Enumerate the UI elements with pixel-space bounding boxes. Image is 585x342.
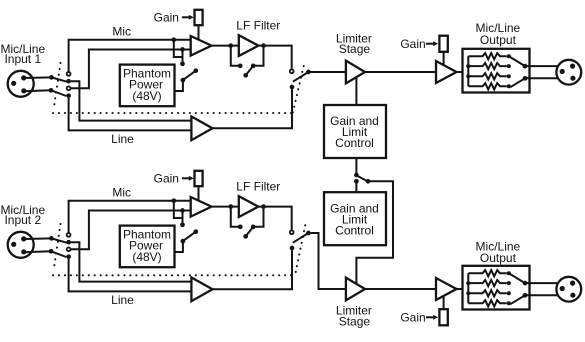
- selector S10 line throw ch2: [290, 246, 295, 251]
- contact R9: [507, 271, 511, 275]
- limiter amp U4 ch1: [346, 61, 365, 84]
- switch S7b line throw: [66, 254, 71, 259]
- switch S7a mic throw (open): [67, 233, 71, 237]
- J2 pin 1: [560, 69, 565, 74]
- output level switch S6b pole ch1: [523, 76, 528, 81]
- gang dotted line selector ch2: [296, 224, 306, 272]
- mic preamp U1 ch1: [191, 36, 212, 56]
- gain pot R8 (output amp 2): [439, 309, 447, 325]
- junction phantom feed on bus A ch2: [171, 198, 176, 203]
- XLR connector J1 (Mic/Line Input 1): [8, 71, 34, 97]
- link switch S5 lever: [357, 176, 367, 181]
- switch S7a pole: [49, 236, 54, 241]
- wire LF bypass left leg: [231, 46, 238, 66]
- LF bypass switch S3 lever (open): [246, 66, 253, 75]
- svg-text:Output: Output: [480, 251, 517, 265]
- svg-text:Gain: Gain: [154, 11, 179, 25]
- J1 pin 1: [11, 81, 16, 86]
- phantom switch S8 pole: [181, 239, 186, 244]
- gain pot R1 (mic preamp 1): [195, 10, 203, 25]
- svg-text:Stage: Stage: [339, 315, 371, 329]
- output level switch S6a lever ch1: [510, 57, 525, 66]
- contact R10: [507, 281, 511, 285]
- resistor bus ch1: [467, 56, 469, 86]
- wire J3 pin3 to switch S7b pole: [24, 250, 51, 253]
- resistor R9 ch2: [468, 270, 507, 276]
- arrow gain pot 2: [182, 177, 190, 179]
- wire pot out1 to amp: [443, 52, 445, 66]
- LF bypass switch S9 lever (open): [246, 227, 253, 236]
- wire LF out to selector ch2: [258, 207, 291, 230]
- wire J1 pin3 to switch S1b pole: [24, 89, 51, 92]
- contact R12: [507, 301, 511, 305]
- output level switch S11a lever ch2: [510, 274, 525, 283]
- wire J1 pin2 to switch S1a pole: [24, 76, 51, 79]
- output level switch S11a pole ch2: [523, 281, 528, 286]
- phantom power supply box ch2: [120, 226, 175, 268]
- J4 pin 3: [570, 293, 575, 298]
- wire pot 2 to preamp: [198, 186, 200, 201]
- wire link contact to box2: [355, 181, 357, 192]
- wire S11a to XLR out ch2: [525, 282, 558, 284]
- wire S6a to XLR out ch1: [525, 65, 558, 67]
- junction phantom feed on bus A: [171, 37, 176, 42]
- J3 pin 3: [21, 249, 26, 254]
- J1 pin 3: [21, 88, 26, 93]
- svg-text:Gain: Gain: [400, 311, 425, 325]
- wire line bus lower ch2: [69, 259, 192, 292]
- limiter amp U9 ch2: [346, 278, 365, 301]
- wire preamp out to LF filter ch2: [212, 206, 239, 208]
- resistor R11 ch2: [468, 290, 507, 296]
- phantom power supply box ch1: [120, 65, 175, 107]
- selector S4 lever ch1: [293, 72, 309, 82]
- wire pot out2 to amp: [443, 296, 445, 309]
- gang dotted line input switch ch1: [54, 63, 61, 110]
- svg-text:Input 1: Input 1: [4, 52, 41, 66]
- contact R11: [507, 291, 511, 295]
- XLR connector J3 (Mic/Line Input 2): [8, 232, 34, 258]
- gain and limit control box ch1: [324, 105, 386, 158]
- switch S1b line throw: [66, 93, 71, 98]
- selector S4 line throw ch1: [290, 85, 295, 90]
- svg-text:(48V): (48V): [132, 250, 161, 264]
- wire limiter to gain/limit control ch1: [355, 78, 357, 106]
- wire line amp out to selector throw ch2: [213, 250, 293, 289]
- svg-text:Control: Control: [335, 223, 374, 237]
- phantom switch S2 lever tip (open): [193, 68, 198, 73]
- svg-text:Mic: Mic: [112, 186, 131, 200]
- LF bypass contact left ch2: [238, 224, 243, 229]
- wire line bus lower ch1: [69, 98, 192, 130]
- phantom switch S8 lever: [183, 232, 196, 241]
- contact R4: [507, 64, 511, 68]
- wire limiter out to output amp ch1: [365, 71, 436, 73]
- gain and limit control box ch2: [324, 192, 386, 245]
- output level switch S11b pole ch2: [523, 293, 528, 298]
- wire phantom feed network ch1: [174, 40, 183, 64]
- output attenuator box ch2: [463, 266, 530, 310]
- LF bypass contact left: [238, 63, 243, 68]
- arrow gain pot 1: [182, 16, 190, 18]
- svg-text:Stage: Stage: [339, 42, 371, 56]
- junction LF bypass out: [261, 43, 266, 48]
- wire output amp to resistor bus ch2: [457, 288, 469, 290]
- J4 pin 2: [570, 281, 575, 286]
- wire LF bypass right leg: [255, 46, 263, 66]
- svg-text:Mic: Mic: [112, 25, 131, 39]
- wire output amp to resistor bus ch1: [457, 71, 469, 73]
- resistor R3 ch1: [468, 53, 507, 59]
- arrow gain pot out2: [426, 316, 433, 318]
- wire mic bus A ch2: [69, 201, 191, 233]
- switch S1b lever: [51, 90, 66, 96]
- wire LF out to selector ch1: [258, 46, 291, 69]
- resistor bus ch2: [467, 273, 469, 303]
- selector S4 mic throw (open) ch1: [290, 69, 294, 73]
- LF filter amp U7 ch2: [239, 196, 259, 217]
- LF bypass contact right ch2: [251, 224, 256, 229]
- line amp U8 ch2: [191, 278, 212, 302]
- phantom switch S8 lever tip (open): [193, 229, 198, 234]
- svg-text:Line: Line: [111, 132, 134, 146]
- junction phantom feed on bus B: [180, 47, 185, 52]
- output level switch S6a pole ch1: [523, 64, 528, 69]
- switch S1a line throw: [66, 79, 71, 84]
- output amp U5 ch1: [436, 61, 457, 83]
- switch S7b lever: [51, 251, 66, 257]
- wire S11b to XLR out ch2: [525, 294, 558, 296]
- junction phantom feed on bus B ch2: [180, 208, 185, 213]
- svg-text:(48V): (48V): [132, 89, 161, 103]
- wire line amp out to selector throw ch1: [213, 89, 293, 128]
- J4 pin 1: [560, 286, 565, 291]
- selector S10 lever ch2: [293, 233, 309, 243]
- switch S1b pole: [49, 88, 54, 93]
- resistor R5 ch1: [468, 73, 507, 79]
- junction LF bypass out ch2: [261, 204, 266, 209]
- arrow gain pot out1: [426, 43, 433, 45]
- link switch S5 throw: [366, 179, 371, 184]
- phantom switch contact ch2: [180, 222, 185, 227]
- gain pot R7 (mic preamp 2): [195, 171, 203, 186]
- LF bypass contact right: [251, 63, 256, 68]
- switch S1a mic throw (open): [67, 72, 71, 76]
- wire selector pole to limiter ch2: [308, 233, 346, 289]
- J3 pin 1: [11, 242, 16, 247]
- link switch S5 contact: [354, 179, 359, 184]
- wire mic bus A ch1: [69, 40, 191, 72]
- wire J3 pin2 to switch S7a pole: [24, 237, 51, 240]
- selector S4 pole ch1: [306, 70, 311, 75]
- wire LF bypass right leg ch2: [255, 207, 263, 227]
- contact R5: [507, 74, 511, 78]
- svg-text:Input 2: Input 2: [4, 213, 41, 227]
- phantom switch S2 lever: [183, 71, 196, 80]
- svg-text:Gain: Gain: [400, 37, 425, 51]
- resistor R6 ch1: [468, 83, 507, 89]
- selector S10 pole ch2: [306, 231, 311, 236]
- junction LF bypass in ch2: [228, 204, 233, 209]
- wire preamp out to LF filter: [212, 45, 239, 47]
- output amp U10 ch2: [436, 278, 457, 300]
- wire mic bus B ch1: [71, 50, 191, 89]
- XLR connector J4 (Mic/Line Output 2): [556, 277, 581, 302]
- output level switch S11b lever ch2: [510, 295, 525, 304]
- wire pot 1 to preamp: [198, 25, 200, 40]
- switch S7b pole: [49, 249, 54, 254]
- LF bypass lever tip: [243, 73, 248, 78]
- wire link switch to limiter 2: [356, 181, 393, 283]
- switch S7a line throw: [66, 240, 71, 245]
- svg-text:Gain: Gain: [154, 172, 179, 186]
- svg-text:Control: Control: [335, 136, 374, 150]
- wire phantom feed network ch2: [174, 201, 183, 225]
- contact R3: [507, 54, 511, 58]
- switch S7b mic throw (open): [67, 247, 71, 251]
- switch S7a lever: [51, 238, 66, 242]
- switch S1b mic throw (open): [67, 86, 71, 90]
- svg-text:Line: Line: [111, 293, 134, 307]
- junction bus row3 ch2: [466, 291, 470, 295]
- svg-text:LF Filter: LF Filter: [236, 18, 280, 32]
- junction bus row2 ch1: [466, 64, 470, 68]
- phantom switch contact ch1: [180, 61, 185, 66]
- junction LF bypass in: [228, 43, 233, 48]
- junction bus row2 ch2: [466, 281, 470, 285]
- resistor R10 ch2: [468, 280, 507, 286]
- gang dotted line horizontal ch1: [53, 112, 293, 114]
- wire LF bypass left leg ch2: [231, 207, 238, 227]
- link switch S5 pole: [354, 173, 359, 178]
- output level switch S6b lever ch1: [510, 78, 525, 87]
- gang dotted line horizontal ch2: [53, 274, 296, 276]
- line amp U3 ch1: [191, 117, 212, 141]
- wire limiter out to output amp ch2: [365, 288, 436, 290]
- gain pot R2 (output amp 1): [439, 36, 447, 52]
- junction bus row3 ch1: [466, 74, 470, 78]
- mic preamp U6 ch2: [191, 197, 212, 217]
- LF bypass lever tip ch2: [243, 234, 248, 239]
- switch S1a pole: [49, 75, 54, 80]
- wire line bus upper ch2: [71, 242, 192, 281]
- wire box1 to link switch: [355, 158, 357, 173]
- switch S1a lever: [51, 77, 66, 81]
- J3 pin 2: [21, 236, 26, 241]
- wire mic bus B ch2: [71, 211, 191, 250]
- wire phantom pole to phantom supply box: [175, 80, 183, 91]
- gang dotted line input switch ch2: [54, 224, 61, 271]
- gang dotted line selector ch1: [293, 62, 305, 113]
- wire S6b to XLR out ch1: [525, 77, 558, 79]
- phantom switch S2 pole: [181, 78, 186, 83]
- resistor R4 ch1: [468, 63, 507, 69]
- svg-text:LF Filter: LF Filter: [236, 179, 280, 193]
- wire phantom pole to phantom supply box ch2: [175, 241, 183, 252]
- J2 pin 2: [570, 64, 575, 69]
- contact R6: [507, 84, 511, 88]
- selector S10 mic throw (open) ch2: [290, 230, 294, 234]
- resistor R12 ch2: [468, 300, 507, 306]
- J2 pin 3: [570, 76, 575, 81]
- wire selector pole to limiter ch1: [308, 71, 346, 73]
- output attenuator box ch1: [463, 49, 530, 93]
- LF filter amp U2 ch1: [239, 35, 259, 56]
- J1 pin 2: [21, 75, 26, 80]
- wire line bus upper ch1: [71, 81, 192, 120]
- svg-text:Output: Output: [480, 33, 517, 47]
- XLR connector J2 (Mic/Line Output 1): [556, 60, 581, 85]
